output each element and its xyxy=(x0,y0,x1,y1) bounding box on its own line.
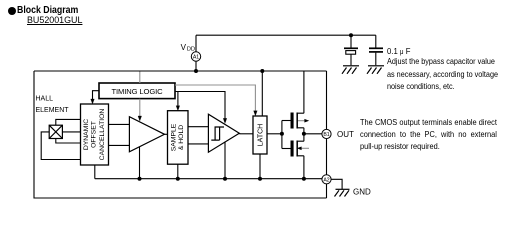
wire hall right lead xyxy=(62,131,80,133)
wire latch VDD drop xyxy=(261,71,263,116)
wire hall top lead xyxy=(56,119,81,125)
title bullet xyxy=(8,7,16,15)
wire bypass line to capacitors xyxy=(196,34,376,36)
node gate bus junction xyxy=(280,132,284,136)
outer IC block boundary xyxy=(34,71,327,198)
wire amp ground xyxy=(139,147,141,179)
ground (C1) xyxy=(342,66,359,74)
svg-text:A1: A1 xyxy=(193,55,199,61)
note: capacitor value xyxy=(387,46,410,56)
terminal B1 xyxy=(322,129,331,138)
block timing logic xyxy=(99,83,175,99)
note paragraph 2 xyxy=(360,116,497,152)
node latch VDD junction xyxy=(260,69,264,73)
op-amp A (first amplifier) xyxy=(129,117,164,152)
block latch xyxy=(253,116,267,154)
wire internal ground rail xyxy=(95,178,322,180)
node rail junction comparator xyxy=(223,177,227,181)
wire S&H ground xyxy=(177,164,179,179)
node output junction xyxy=(302,132,306,136)
wire timing clock to amp (gray) xyxy=(139,72,141,117)
node VDD rail junction xyxy=(194,69,198,73)
node rail junction S&H xyxy=(176,177,180,181)
wire timing clock bus (black) to S&H and comparator xyxy=(175,92,225,119)
svg-text:CANCELLATION: CANCELLATION xyxy=(99,109,106,161)
svg-text:GND: GND xyxy=(353,187,371,196)
node rail junction amp xyxy=(138,177,142,181)
terminal A1 xyxy=(191,52,200,61)
transistor Q1 PMOS xyxy=(282,71,309,134)
wire latch output to gate bus xyxy=(267,133,282,135)
wire DOC ground xyxy=(94,165,96,179)
svg-text:DD: DD xyxy=(187,47,195,53)
svg-text:ELEMENT: ELEMENT xyxy=(36,107,70,114)
svg-text:HALL: HALL xyxy=(36,96,54,103)
wire amp output xyxy=(165,133,168,135)
wire output to B1 xyxy=(304,133,322,135)
svg-text:LATCH: LATCH xyxy=(257,124,264,146)
comparator with hysteresis xyxy=(208,114,239,152)
wire timing clock to latch (gray) xyxy=(175,85,255,111)
svg-text:OFFSET: OFFSET xyxy=(90,121,97,148)
svg-text:B1: B1 xyxy=(323,132,329,138)
wire hall left feedback lead xyxy=(41,132,80,160)
terminal A2 xyxy=(322,175,331,184)
node rail junction NMOS xyxy=(302,177,306,181)
capacitor C2 0.1uF xyxy=(369,35,383,65)
wire A2 to ground xyxy=(331,179,342,189)
wire DOC to amp (differential pair) xyxy=(109,124,130,145)
part number xyxy=(27,15,82,26)
wire gate bus xyxy=(281,121,283,149)
hall element X1 xyxy=(49,125,62,138)
title heading xyxy=(17,4,78,16)
wire VDD lead down to A1 xyxy=(195,35,197,71)
wire timing clock to DOC xyxy=(93,91,100,100)
wire comparator output xyxy=(239,133,253,135)
svg-text:TIMING LOGIC: TIMING LOGIC xyxy=(111,87,163,96)
wire comparator ground xyxy=(224,142,226,179)
hysteresis symbol xyxy=(211,127,224,140)
wire hall bottom lead xyxy=(56,139,81,144)
node cap junction xyxy=(349,33,353,37)
block sample & hold xyxy=(168,111,189,165)
svg-text:& HOLD: & HOLD xyxy=(178,125,185,150)
block dynamic offset cancellation xyxy=(81,104,109,165)
svg-text:SAMPLE: SAMPLE xyxy=(170,123,177,151)
capacitor C1 (polarized bypass) xyxy=(344,35,358,65)
svg-text:DYNAMIC: DYNAMIC xyxy=(83,119,90,150)
wire latch ground xyxy=(259,154,261,179)
note paragraph 1 xyxy=(387,55,498,92)
ground (A2) xyxy=(335,189,350,196)
transistor Q2 NMOS xyxy=(282,134,309,179)
node rail junction latch xyxy=(258,177,262,181)
ground (C2) xyxy=(367,66,384,74)
svg-text:A2: A2 xyxy=(323,177,329,183)
wire S&H to comparator (differential pair) xyxy=(188,127,208,144)
svg-text:OUT: OUT xyxy=(337,130,354,139)
